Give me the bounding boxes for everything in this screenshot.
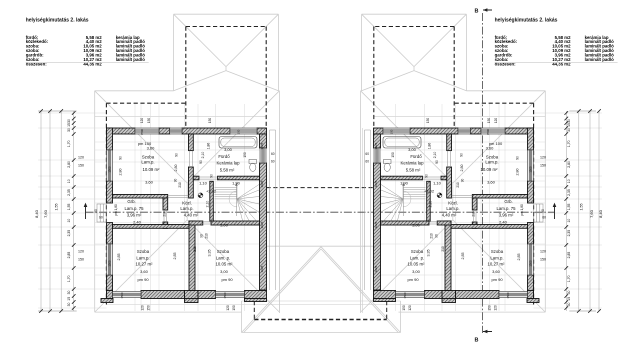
svg-text:2,10: 2,10 xyxy=(206,201,210,208)
level marker L house xyxy=(198,193,203,198)
svg-text:+3,02: +3,02 xyxy=(424,189,435,194)
svg-text:30: 30 xyxy=(67,303,71,307)
svg-text:2,80: 2,80 xyxy=(516,169,520,176)
svg-text:60: 60 xyxy=(542,216,546,220)
svg-text:60: 60 xyxy=(271,152,275,156)
svg-text:4,40 m²: 4,40 m² xyxy=(184,212,199,217)
dashed roof-eave outline R house xyxy=(374,27,534,305)
svg-text:150: 150 xyxy=(391,152,395,158)
svg-text:1,55: 1,55 xyxy=(567,203,571,210)
svg-text:3025: 3025 xyxy=(260,221,264,228)
svg-text:1,10: 1,10 xyxy=(199,181,208,186)
level marker R house xyxy=(437,193,442,198)
exterior walls R house xyxy=(365,128,544,303)
svg-text:laminált padló: laminált padló xyxy=(585,57,615,62)
svg-text:10: 10 xyxy=(67,219,71,223)
svg-text:150: 150 xyxy=(488,305,492,311)
roof outline left house xyxy=(95,14,280,313)
exterior walls L house xyxy=(97,128,276,303)
construction grid lines L house xyxy=(38,104,267,311)
svg-text:120: 120 xyxy=(408,305,412,311)
svg-text:Szoba: Szoba xyxy=(491,249,504,254)
svg-text:1,86: 1,86 xyxy=(428,143,432,150)
room and dimension labels R house xyxy=(365,118,546,311)
svg-text:7,60: 7,60 xyxy=(43,209,48,218)
construction grid lines R house xyxy=(374,104,603,311)
svg-text:1500: 1500 xyxy=(529,260,533,267)
svg-text:90: 90 xyxy=(435,160,439,164)
svg-text:pm 1,80: pm 1,80 xyxy=(114,204,118,216)
svg-text:30: 30 xyxy=(67,119,71,123)
middle roof between houses xyxy=(106,128,534,333)
svg-text:150: 150 xyxy=(237,129,241,134)
svg-text:Lam.p.: Lam.p. xyxy=(141,160,154,165)
svg-text:150: 150 xyxy=(78,258,84,262)
svg-text:Lam.p. 75: Lam.p. 75 xyxy=(496,206,516,211)
svg-text:210: 210 xyxy=(456,182,460,188)
svg-text:1,70: 1,70 xyxy=(67,140,71,147)
svg-text:90: 90 xyxy=(94,209,98,213)
svg-text:2,35: 2,35 xyxy=(67,230,71,237)
svg-text:90: 90 xyxy=(210,174,214,178)
svg-text:laminált padló: laminált padló xyxy=(116,57,146,62)
svg-text:Közl.: Közl. xyxy=(182,201,192,206)
staircase L house xyxy=(215,182,260,221)
svg-text:3,60: 3,60 xyxy=(147,146,156,151)
svg-text:150: 150 xyxy=(540,258,546,262)
svg-text:5.58 m²: 5.58 m² xyxy=(406,168,421,173)
svg-text:60: 60 xyxy=(99,216,103,220)
svg-text:Szoba: Szoba xyxy=(137,249,150,254)
svg-text:1500: 1500 xyxy=(108,260,112,267)
bathtub L house xyxy=(219,137,257,149)
svg-text:150: 150 xyxy=(540,164,546,168)
svg-text:2,80: 2,80 xyxy=(460,165,464,172)
room schedule table right xyxy=(495,18,618,67)
svg-text:3025: 3025 xyxy=(374,265,378,272)
svg-text:150: 150 xyxy=(147,118,151,124)
svg-text:30: 30 xyxy=(67,128,71,132)
svg-text:30: 30 xyxy=(567,119,571,123)
svg-text:3025: 3025 xyxy=(374,142,378,149)
svg-text:150: 150 xyxy=(390,129,394,134)
svg-text:120: 120 xyxy=(141,305,145,311)
svg-text:1500: 1500 xyxy=(140,128,144,135)
svg-text:3025: 3025 xyxy=(374,180,378,187)
svg-text:90: 90 xyxy=(173,179,177,183)
svg-text:1500: 1500 xyxy=(529,166,533,173)
svg-text:10,27 m²: 10,27 m² xyxy=(488,262,506,267)
svg-text:1,90: 1,90 xyxy=(232,181,241,186)
svg-text:2,40: 2,40 xyxy=(499,219,508,224)
bathtub R house xyxy=(383,137,421,149)
svg-text:3,60: 3,60 xyxy=(140,269,149,274)
toilet R house xyxy=(384,160,392,172)
svg-text:Kerámia lap: Kerámia lap xyxy=(401,161,425,166)
svg-text:210: 210 xyxy=(441,246,445,252)
svg-text:összesen:: összesen: xyxy=(26,62,48,67)
svg-text:210: 210 xyxy=(193,246,197,252)
svg-text:2,80: 2,80 xyxy=(567,161,571,168)
svg-text:210: 210 xyxy=(472,211,476,217)
svg-text:2,10: 2,10 xyxy=(429,201,433,208)
svg-text:B: B xyxy=(475,9,479,15)
room schedule table left xyxy=(26,18,149,67)
svg-text:3,35: 3,35 xyxy=(427,250,431,257)
svg-text:120: 120 xyxy=(540,250,546,254)
svg-text:10.09 m²: 10.09 m² xyxy=(481,167,499,172)
svg-text:120: 120 xyxy=(78,156,84,160)
svg-text:30: 30 xyxy=(567,303,571,307)
svg-text:3,00: 3,00 xyxy=(224,147,233,152)
interior walls L house xyxy=(113,134,260,291)
svg-text:Lam. p.: Lam. p. xyxy=(216,255,230,260)
svg-text:30: 30 xyxy=(567,291,571,295)
svg-text:1500: 1500 xyxy=(506,292,510,299)
svg-text:10.05 m²: 10.05 m² xyxy=(408,262,426,267)
svg-text:120: 120 xyxy=(78,250,84,254)
staircase R house xyxy=(381,182,426,221)
svg-text:5.58 m²: 5.58 m² xyxy=(220,168,235,173)
svg-text:120: 120 xyxy=(540,156,546,160)
svg-text:150: 150 xyxy=(487,118,491,124)
svg-text:3,00: 3,00 xyxy=(412,223,421,228)
svg-text:2,35: 2,35 xyxy=(567,230,571,237)
svg-text:10: 10 xyxy=(67,179,71,183)
svg-text:Szoba: Szoba xyxy=(142,154,155,159)
svg-text:120: 120 xyxy=(226,305,230,311)
svg-text:+3,02: +3,02 xyxy=(206,189,217,194)
svg-text:90: 90 xyxy=(119,156,123,160)
svg-text:Fürdő: Fürdő xyxy=(218,154,230,159)
svg-text:3,00: 3,00 xyxy=(408,147,417,152)
svg-text:Lam.p.: Lam.p. xyxy=(136,255,149,260)
svg-text:8,40: 8,40 xyxy=(34,209,39,218)
svg-text:3025: 3025 xyxy=(260,142,264,149)
svg-text:3025: 3025 xyxy=(260,265,264,272)
svg-text:90: 90 xyxy=(199,160,203,164)
svg-text:2,40: 2,40 xyxy=(133,219,142,224)
svg-text:90: 90 xyxy=(175,153,179,157)
svg-text:2,85: 2,85 xyxy=(461,253,465,260)
svg-text:Grb.: Grb. xyxy=(504,199,512,204)
svg-text:210: 210 xyxy=(430,233,434,239)
svg-text:3,60: 3,60 xyxy=(145,180,154,185)
svg-text:Fürdő: Fürdő xyxy=(410,154,422,159)
svg-text:2,85: 2,85 xyxy=(517,254,521,261)
section line B vertical xyxy=(475,8,492,343)
svg-text:30: 30 xyxy=(67,291,71,295)
roof outline right house xyxy=(361,14,546,313)
svg-text:Lam.p.: Lam.p. xyxy=(446,206,459,211)
svg-text:Kerámia lap: Kerámia lap xyxy=(217,161,241,166)
svg-text:210: 210 xyxy=(205,233,209,239)
svg-text:3,35: 3,35 xyxy=(207,250,211,257)
svg-text:15: 15 xyxy=(67,123,71,127)
svg-text:2,85: 2,85 xyxy=(67,252,71,259)
svg-text:pm 1,80: pm 1,80 xyxy=(520,204,524,216)
svg-text:210: 210 xyxy=(163,211,167,217)
svg-text:8,40: 8,40 xyxy=(598,209,603,218)
svg-text:150: 150 xyxy=(147,305,151,311)
svg-text:B: B xyxy=(475,338,479,343)
svg-text:90: 90 xyxy=(461,179,465,183)
svg-text:2,35: 2,35 xyxy=(67,189,71,196)
svg-text:1500: 1500 xyxy=(223,292,227,299)
svg-text:1,86: 1,86 xyxy=(206,143,210,150)
svg-text:10.05 m²: 10.05 m² xyxy=(216,262,234,267)
svg-text:1,55: 1,55 xyxy=(580,204,584,211)
svg-text:Lam.p.: Lam.p. xyxy=(490,255,503,260)
svg-text:90: 90 xyxy=(516,156,520,160)
svg-text:2,10: 2,10 xyxy=(201,152,205,159)
svg-text:10.09 m²: 10.09 m² xyxy=(143,167,161,172)
svg-text:1,55: 1,55 xyxy=(55,204,59,211)
svg-text:30: 30 xyxy=(567,128,571,132)
svg-text:10,27 m²: 10,27 m² xyxy=(136,262,154,267)
svg-text:1,90: 1,90 xyxy=(400,181,409,186)
svg-text:helyiségkimutatás 2. lakás: helyiségkimutatás 2. lakás xyxy=(26,18,89,24)
svg-text:3,60: 3,60 xyxy=(492,269,501,274)
svg-text:3,00: 3,00 xyxy=(412,269,421,274)
svg-text:2,35: 2,35 xyxy=(567,189,571,196)
svg-text:1500: 1500 xyxy=(108,166,112,173)
svg-text:pm 90: pm 90 xyxy=(137,277,149,282)
svg-text:Szoba: Szoba xyxy=(217,249,230,254)
svg-text:helyiségkimutatás 2. lakás: helyiségkimutatás 2. lakás xyxy=(495,18,558,24)
svg-text:3,00: 3,00 xyxy=(220,269,229,274)
vertical dimension chain R side xyxy=(565,109,604,313)
svg-text:15: 15 xyxy=(567,297,571,301)
svg-text:90: 90 xyxy=(541,209,545,213)
svg-text:3,60: 3,60 xyxy=(487,180,496,185)
svg-text:3,00: 3,00 xyxy=(220,223,229,228)
svg-text:3025: 3025 xyxy=(374,221,378,228)
svg-text:1,70: 1,70 xyxy=(67,275,71,282)
svg-text:210: 210 xyxy=(178,182,182,188)
interior walls R house xyxy=(381,134,528,291)
svg-text:60: 60 xyxy=(365,152,369,156)
svg-text:15: 15 xyxy=(67,297,71,301)
svg-text:44,35 m2: 44,35 m2 xyxy=(552,62,571,67)
svg-text:összesen:: összesen: xyxy=(495,62,517,67)
svg-text:Grb.: Grb. xyxy=(127,199,135,204)
svg-text:10: 10 xyxy=(567,219,571,223)
svg-text:pm 90: pm 90 xyxy=(407,277,419,282)
section line A-A horizontal xyxy=(84,203,557,219)
svg-text:90: 90 xyxy=(200,234,204,238)
svg-text:44,35 m2: 44,35 m2 xyxy=(83,62,102,67)
svg-text:120: 120 xyxy=(140,118,144,124)
svg-text:90: 90 xyxy=(425,174,429,178)
svg-text:Szoba: Szoba xyxy=(411,249,424,254)
svg-text:Lam. p.: Lam. p. xyxy=(410,255,424,260)
svg-text:1,10: 1,10 xyxy=(433,181,442,186)
svg-text:90: 90 xyxy=(435,234,439,238)
svg-text:Közl.: Közl. xyxy=(448,201,458,206)
svg-text:2,85: 2,85 xyxy=(567,252,571,259)
svg-text:1500: 1500 xyxy=(120,292,124,299)
svg-text:3025: 3025 xyxy=(260,180,264,187)
svg-text:150: 150 xyxy=(426,118,430,124)
svg-text:Lam.p. 75: Lam.p. 75 xyxy=(124,206,144,211)
toilet L house xyxy=(249,160,257,172)
svg-text:3,60: 3,60 xyxy=(486,146,495,151)
svg-text:1,55: 1,55 xyxy=(67,203,71,210)
svg-text:10: 10 xyxy=(567,179,571,183)
svg-text:4,40 m²: 4,40 m² xyxy=(442,212,457,217)
svg-text:120: 120 xyxy=(494,118,498,124)
svg-text:1500: 1500 xyxy=(486,128,490,135)
svg-text:1500: 1500 xyxy=(403,292,407,299)
svg-text:1,70: 1,70 xyxy=(567,140,571,147)
vertical dimension chain L side xyxy=(34,109,77,313)
svg-text:3,96 m²: 3,96 m² xyxy=(127,212,142,217)
svg-text:2,80: 2,80 xyxy=(67,161,71,168)
svg-text:90: 90 xyxy=(460,153,464,157)
dashed roof-eave outline L house xyxy=(106,27,266,305)
svg-text:pm 90: pm 90 xyxy=(221,277,233,282)
svg-text:150: 150 xyxy=(232,305,236,311)
svg-text:2,85: 2,85 xyxy=(117,254,121,261)
svg-text:Lam.p.: Lam.p. xyxy=(180,206,193,211)
svg-text:3,96 m²: 3,96 m² xyxy=(499,212,514,217)
dashed terrace outline between houses xyxy=(254,188,386,320)
svg-text:150: 150 xyxy=(78,164,84,168)
svg-text:150: 150 xyxy=(402,305,406,311)
svg-text:1,70: 1,70 xyxy=(567,275,571,282)
svg-text:2,80: 2,80 xyxy=(119,169,123,176)
room and dimension labels L house xyxy=(78,118,275,311)
svg-text:60: 60 xyxy=(271,160,275,164)
svg-text:Szoba: Szoba xyxy=(486,154,499,159)
svg-text:150: 150 xyxy=(208,118,212,124)
svg-text:15: 15 xyxy=(567,123,571,127)
svg-text:150: 150 xyxy=(243,152,247,158)
svg-text:2,85: 2,85 xyxy=(173,253,177,260)
svg-text:Lam.p.: Lam.p. xyxy=(485,160,498,165)
svg-text:60: 60 xyxy=(365,160,369,164)
svg-text:pm 90: pm 90 xyxy=(491,277,503,282)
svg-text:2,10: 2,10 xyxy=(433,152,437,159)
svg-text:2,80: 2,80 xyxy=(174,165,178,172)
svg-text:120: 120 xyxy=(494,305,498,311)
svg-text:7,60: 7,60 xyxy=(589,209,594,218)
